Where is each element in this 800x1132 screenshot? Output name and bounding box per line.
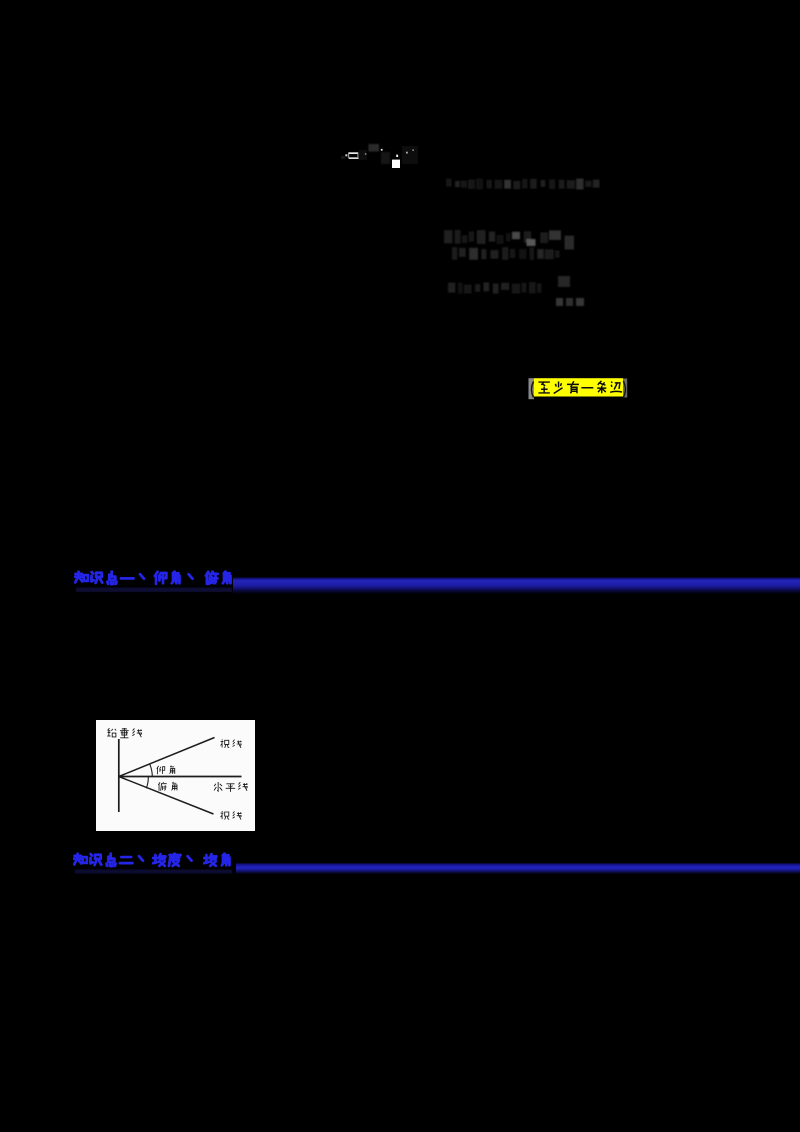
- label 铅垂线 (plumb line): [107, 728, 142, 738]
- horizontal line: [119, 776, 242, 778]
- section header 2: 知识点二、坡度、坡角 (blue bold): [74, 853, 230, 866]
- label 视线 lower: [221, 811, 242, 819]
- gradient rule 1: [233, 577, 800, 595]
- title fragments: white glyph counters: [345, 149, 414, 168]
- section header 1: 知识点一、仰角、俯角 (blue bold): [75, 571, 231, 584]
- lower sight ray: [119, 777, 214, 815]
- equation smudge row 1: [446, 179, 600, 190]
- vertical plumb line: [118, 739, 120, 812]
- header 2 echo smudge: [75, 870, 232, 874]
- depression angle arc: [146, 777, 148, 789]
- gray shaded right paren: [623, 379, 627, 398]
- elevation angle arc: [150, 764, 153, 776]
- yellow highlight box: [534, 378, 623, 396]
- title fragments: dark glyph ghosts: [341, 144, 418, 164]
- label 视线 upper: [221, 739, 242, 747]
- upper sight ray: [119, 738, 215, 777]
- label 俯角: [158, 782, 177, 791]
- header 1 echo smudge: [76, 588, 232, 593]
- gray shaded left paren: [529, 378, 535, 399]
- diagram white panel: [96, 720, 255, 831]
- label 仰角: [157, 766, 175, 775]
- equation smudge block 2 (fractions): [444, 230, 574, 260]
- equation smudge row 3 with fraction: [448, 276, 584, 306]
- label 水平线: [214, 782, 248, 792]
- highlighted text: 至少有一条边: [538, 381, 622, 394]
- gradient rule 2: [236, 863, 800, 875]
